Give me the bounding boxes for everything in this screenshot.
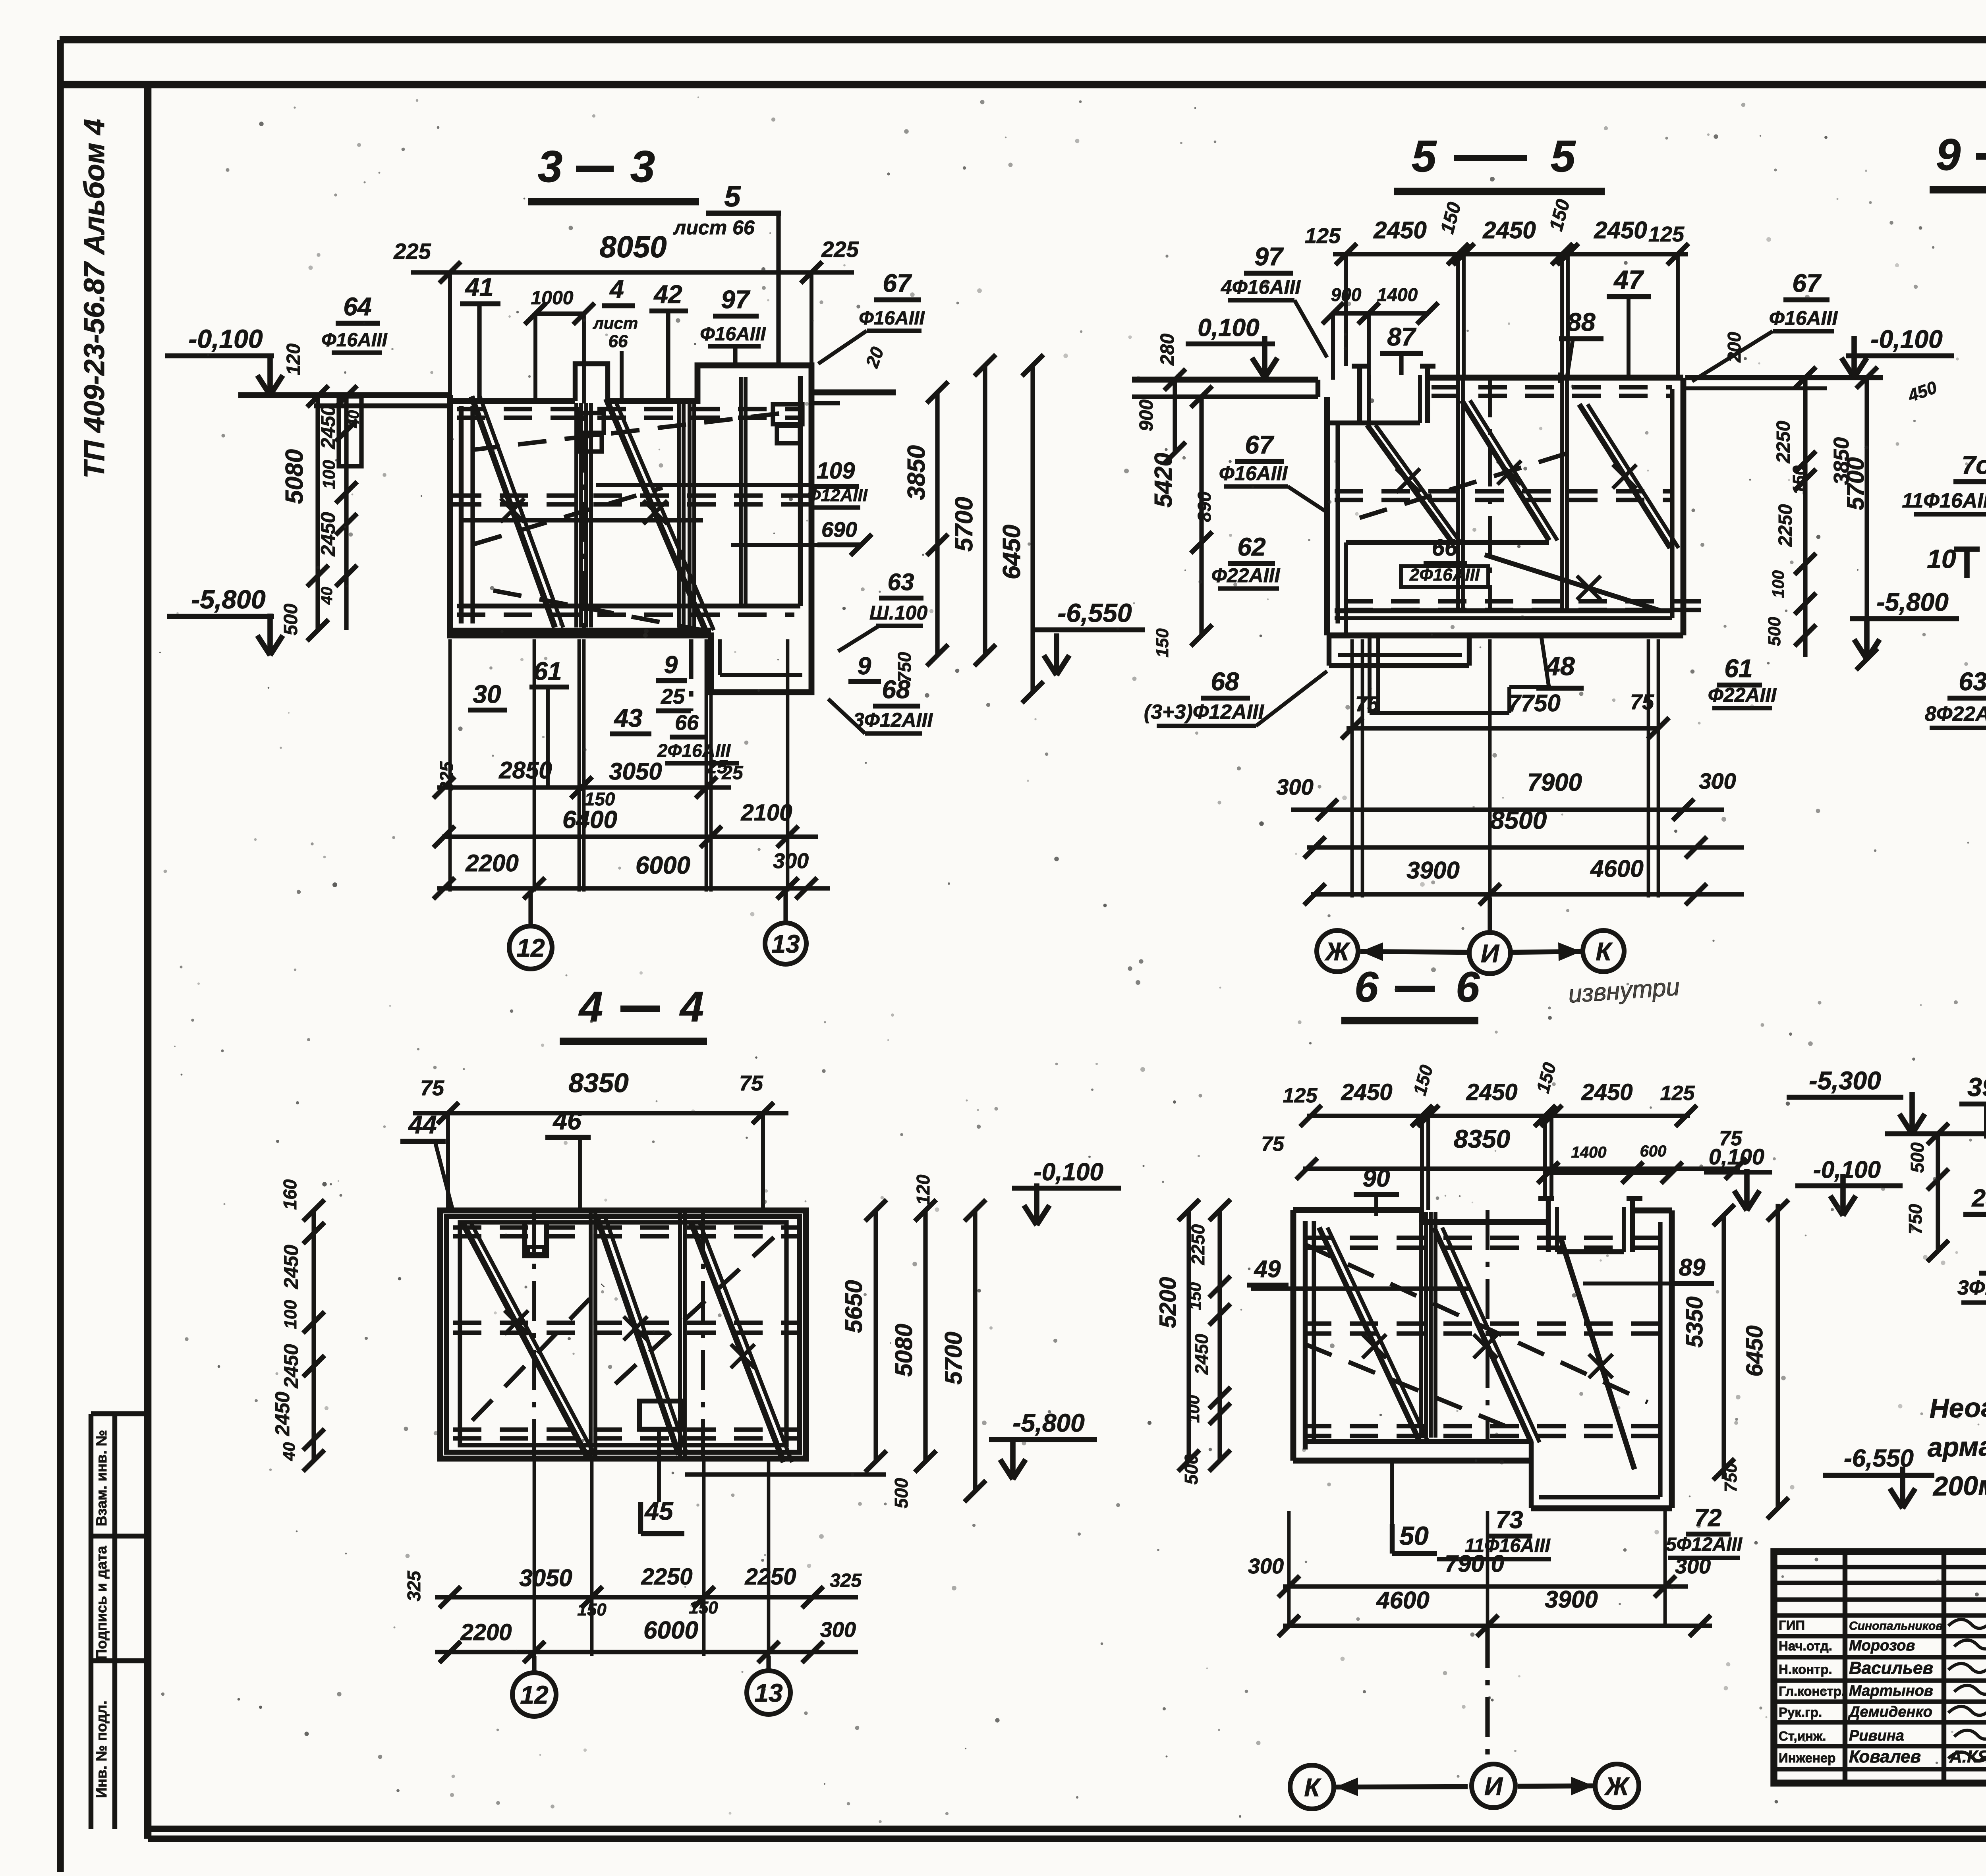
svg-text:Н.контр.: Н.контр. <box>1779 1662 1832 1677</box>
svg-text:89: 89 <box>1679 1254 1706 1281</box>
svg-text:7900: 7900 <box>1527 769 1582 796</box>
svg-text:Инв. № подл.: Инв. № подл. <box>93 1700 110 1798</box>
svg-text:2450: 2450 <box>1581 1079 1632 1105</box>
svg-text:3: 3 <box>630 142 655 191</box>
svg-text:Ф16АIII: Ф16АIII <box>859 308 925 329</box>
svg-text:4: 4 <box>679 982 704 1031</box>
svg-text:К: К <box>1304 1773 1321 1802</box>
svg-text:12: 12 <box>520 1681 548 1709</box>
svg-text:890: 890 <box>1194 491 1215 522</box>
svg-text:2450: 2450 <box>1594 217 1647 243</box>
svg-text:5: 5 <box>1412 131 1437 181</box>
svg-text:арматурных стержней: арматурных стержней <box>1927 1427 1986 1463</box>
svg-text:7о: 7о <box>1962 451 1986 479</box>
svg-text:3050: 3050 <box>519 1565 572 1591</box>
svg-text:8500: 8500 <box>1490 806 1547 834</box>
svg-text:90: 90 <box>1363 1165 1390 1192</box>
svg-text:150: 150 <box>1186 1282 1204 1310</box>
svg-text:300: 300 <box>820 1618 856 1642</box>
svg-text:63: 63 <box>1959 667 1986 696</box>
svg-text:Ф16АIII: Ф16АIII <box>700 324 766 345</box>
svg-text:40: 40 <box>280 1442 298 1461</box>
svg-text:2850: 2850 <box>498 757 552 784</box>
svg-text:2250: 2250 <box>1188 1224 1208 1265</box>
svg-text:3Ф12АIII: 3Ф12АIII <box>853 709 933 731</box>
svg-text:5Ф12АIII: 5Ф12АIII <box>1666 1534 1743 1555</box>
svg-text:500: 500 <box>280 604 301 635</box>
svg-text:68: 68 <box>1211 667 1239 696</box>
svg-text:6400: 6400 <box>562 806 617 834</box>
svg-text:125: 125 <box>1283 1084 1318 1107</box>
svg-text:6: 6 <box>1354 963 1379 1011</box>
svg-text:125: 125 <box>1305 224 1341 248</box>
svg-text:325: 325 <box>404 1570 424 1601</box>
svg-text:40: 40 <box>318 587 336 605</box>
svg-text:5: 5 <box>1551 131 1576 181</box>
svg-text:Ж: Ж <box>1604 1772 1630 1801</box>
svg-text:2200: 2200 <box>460 1619 512 1645</box>
svg-text:5700: 5700 <box>950 497 978 552</box>
svg-text:225: 225 <box>393 239 431 264</box>
svg-text:200мм.: 200мм. <box>1932 1470 1986 1502</box>
svg-text:7750: 7750 <box>1507 690 1560 716</box>
svg-text:125: 125 <box>1660 1082 1695 1105</box>
svg-text:3850: 3850 <box>1830 437 1853 485</box>
svg-text:64: 64 <box>343 292 371 321</box>
svg-text:2450: 2450 <box>317 512 339 556</box>
svg-text:8Ф22АIII: 8Ф22АIII <box>1925 703 1986 726</box>
svg-text:8350: 8350 <box>1454 1125 1510 1153</box>
svg-text:0,100: 0,100 <box>1709 1144 1764 1169</box>
svg-text:12: 12 <box>516 934 545 962</box>
svg-text:Ж: Ж <box>1324 937 1350 966</box>
svg-text:66: 66 <box>609 332 628 351</box>
svg-text:Подпись и дата: Подпись и дата <box>93 1546 110 1660</box>
svg-text:Нач.отд.: Нач.отд. <box>1779 1639 1832 1653</box>
svg-text:100: 100 <box>1769 570 1787 598</box>
svg-text:300: 300 <box>1699 768 1736 793</box>
svg-text:ТП 409-23-56.87 Альбом 4: ТП 409-23-56.87 Альбом 4 <box>79 119 110 479</box>
svg-text:500: 500 <box>891 1478 912 1508</box>
svg-text:Ф16АIII: Ф16АIII <box>321 330 388 351</box>
svg-text:100: 100 <box>281 1300 300 1329</box>
svg-text:11Ф16АIII: 11Ф16АIII <box>1902 489 1986 512</box>
svg-text:48: 48 <box>1545 651 1575 681</box>
svg-text:750: 750 <box>1721 1463 1741 1492</box>
svg-text:-0,100: -0,100 <box>1870 325 1942 353</box>
svg-text:А.КЯ-: А.КЯ- <box>1949 1747 1986 1766</box>
svg-text:Ф12АIII: Ф12АIII <box>807 486 868 505</box>
svg-text:120: 120 <box>913 1174 933 1205</box>
svg-text:500: 500 <box>1907 1142 1928 1173</box>
svg-text:9: 9 <box>1936 130 1961 179</box>
svg-text:42: 42 <box>653 280 682 309</box>
svg-text:8050: 8050 <box>599 230 667 264</box>
svg-text:67: 67 <box>883 269 912 297</box>
svg-text:3050: 3050 <box>609 758 662 785</box>
svg-text:62: 62 <box>1237 533 1265 561</box>
svg-text:И: И <box>1484 1772 1503 1801</box>
svg-text:6000: 6000 <box>636 852 690 879</box>
svg-text:(3+3)Ф12АIII: (3+3)Ф12АIII <box>1144 701 1265 724</box>
svg-text:Гл.констр.: Гл.констр. <box>1779 1684 1845 1698</box>
svg-text:9: 9 <box>858 652 871 680</box>
svg-text:3Ф12АIII: 3Ф12АIII <box>1957 1276 1986 1299</box>
svg-text:2250: 2250 <box>1773 421 1794 463</box>
svg-text:3850: 3850 <box>903 445 930 500</box>
svg-text:2450: 2450 <box>271 1392 294 1436</box>
svg-text:Ф22АIII: Ф22АIII <box>1708 684 1777 706</box>
svg-text:3: 3 <box>538 142 562 191</box>
svg-text:-6,550: -6,550 <box>1057 598 1132 627</box>
svg-text:2450: 2450 <box>1482 217 1536 243</box>
svg-text:ГИП: ГИП <box>1779 1618 1805 1633</box>
svg-text:4: 4 <box>609 275 624 303</box>
svg-text:2450: 2450 <box>280 1245 302 1289</box>
svg-text:600: 600 <box>1640 1143 1667 1160</box>
svg-text:690: 690 <box>821 518 857 542</box>
svg-text:К: К <box>1596 937 1613 966</box>
svg-text:100: 100 <box>1184 1395 1203 1423</box>
svg-text:325: 325 <box>830 1570 862 1591</box>
svg-text:2450: 2450 <box>1341 1079 1392 1105</box>
svg-text:2450: 2450 <box>1191 1334 1212 1375</box>
svg-text:2250: 2250 <box>1775 504 1796 547</box>
svg-text:88: 88 <box>1567 308 1596 336</box>
svg-text:Ст,инж.: Ст,инж. <box>1779 1729 1826 1743</box>
svg-text:150: 150 <box>1789 465 1809 495</box>
svg-text:4600: 4600 <box>1590 855 1643 882</box>
svg-text:500: 500 <box>1181 1454 1202 1484</box>
svg-text:лист: лист <box>593 314 638 332</box>
svg-text:325: 325 <box>436 761 457 792</box>
svg-text:25: 25 <box>661 685 685 708</box>
svg-text:2450: 2450 <box>317 405 339 449</box>
svg-text:4Ф16АIII: 4Ф16АIII <box>1221 276 1301 298</box>
svg-text:40: 40 <box>345 410 362 428</box>
svg-text:Ш.100: Ш.100 <box>869 602 927 624</box>
svg-text:Васильев: Васильев <box>1849 1658 1933 1678</box>
svg-text:8350: 8350 <box>568 1068 628 1098</box>
svg-text:120: 120 <box>283 344 304 375</box>
svg-text:4600: 4600 <box>1376 1587 1429 1614</box>
svg-text:2450: 2450 <box>1466 1079 1517 1105</box>
svg-text:75: 75 <box>739 1071 763 1095</box>
svg-text:5700: 5700 <box>940 1332 967 1384</box>
svg-text:66: 66 <box>675 711 699 735</box>
svg-text:Ф16АIII: Ф16АIII <box>1219 462 1288 484</box>
svg-text:900: 900 <box>1136 400 1157 431</box>
svg-text:73: 73 <box>1496 1506 1523 1534</box>
svg-text:1000: 1000 <box>531 288 574 309</box>
svg-text:Инженер: Инженер <box>1779 1751 1835 1765</box>
svg-text:1400: 1400 <box>1571 1144 1607 1161</box>
svg-text:61: 61 <box>533 657 562 685</box>
svg-text:Морозов: Морозов <box>1849 1637 1915 1654</box>
svg-text:-0,100: -0,100 <box>1034 1158 1103 1186</box>
svg-text:225: 225 <box>821 237 859 262</box>
svg-text:2100: 2100 <box>740 800 792 826</box>
svg-text:750: 750 <box>1905 1204 1926 1234</box>
svg-text:66: 66 <box>1432 535 1458 561</box>
svg-text:3900: 3900 <box>1545 1586 1598 1613</box>
svg-text:5080: 5080 <box>891 1324 917 1376</box>
svg-text:39: 39 <box>1967 1072 1986 1102</box>
svg-text:63: 63 <box>888 569 914 595</box>
svg-text:47: 47 <box>1613 265 1644 294</box>
svg-text:50: 50 <box>1399 1521 1429 1550</box>
svg-text:Взам. инв. №: Взам. инв. № <box>93 1430 110 1527</box>
svg-text:43: 43 <box>613 704 642 732</box>
svg-text:44: 44 <box>408 1110 437 1139</box>
svg-text:5650: 5650 <box>840 1280 867 1333</box>
svg-text:Ф22АIII: Ф22АIII <box>1211 564 1281 587</box>
svg-text:5: 5 <box>724 180 741 213</box>
svg-text:30: 30 <box>473 680 501 708</box>
svg-text:-0,100: -0,100 <box>1813 1156 1881 1183</box>
svg-text:2250: 2250 <box>641 1564 692 1590</box>
svg-text:Синопальников: Синопальников <box>1849 1619 1943 1633</box>
svg-text:Ривина: Ривина <box>1849 1727 1904 1744</box>
svg-text:300: 300 <box>1276 774 1313 799</box>
svg-text:13: 13 <box>771 930 800 958</box>
svg-text:67: 67 <box>1792 269 1822 297</box>
svg-text:5420: 5420 <box>1150 453 1177 508</box>
svg-text:Рук.гр.: Рук.гр. <box>1779 1705 1822 1720</box>
svg-text:2250: 2250 <box>744 1564 796 1590</box>
svg-text:4: 4 <box>578 982 603 1031</box>
svg-text:6450: 6450 <box>998 525 1026 579</box>
svg-text:41: 41 <box>464 273 493 301</box>
svg-text:5350: 5350 <box>1682 1296 1708 1347</box>
svg-text:300: 300 <box>1248 1554 1284 1578</box>
svg-text:2200: 2200 <box>465 850 518 876</box>
svg-text:500: 500 <box>1765 617 1784 646</box>
svg-text:6450: 6450 <box>1742 1325 1768 1376</box>
svg-text:67: 67 <box>1245 430 1275 459</box>
svg-text:75: 75 <box>1261 1133 1285 1156</box>
svg-text:46: 46 <box>552 1106 582 1135</box>
svg-text:Мартынов: Мартынов <box>1849 1683 1933 1699</box>
svg-text:5080: 5080 <box>281 449 308 504</box>
svg-text:49: 49 <box>1254 1256 1281 1282</box>
svg-text:97: 97 <box>721 285 751 314</box>
svg-text:-5,800: -5,800 <box>191 585 265 614</box>
svg-text:75: 75 <box>1355 692 1379 716</box>
svg-text:3900: 3900 <box>1406 857 1459 884</box>
svg-text:-5,800: -5,800 <box>1876 588 1948 616</box>
svg-text:109: 109 <box>817 458 855 484</box>
svg-text:10: 10 <box>1927 544 1956 573</box>
svg-text:6: 6 <box>1456 963 1480 1011</box>
svg-text:Демиденко: Демиденко <box>1848 1704 1932 1720</box>
svg-text:0,100: 0,100 <box>1198 314 1259 342</box>
svg-text:Ф16АIII: Ф16АIII <box>1769 307 1838 329</box>
svg-text:-5,300: -5,300 <box>1809 1066 1881 1095</box>
svg-text:87: 87 <box>1387 322 1417 351</box>
svg-text:13: 13 <box>754 1679 782 1707</box>
svg-text:68: 68 <box>882 675 910 704</box>
svg-text:160: 160 <box>280 1179 300 1210</box>
svg-text:И: И <box>1481 939 1500 968</box>
svg-text:-0,100: -0,100 <box>188 324 263 353</box>
svg-text:300: 300 <box>1675 1554 1711 1578</box>
svg-text:75: 75 <box>1630 690 1654 714</box>
svg-text:25: 25 <box>1972 1185 1986 1212</box>
svg-text:100: 100 <box>319 460 339 489</box>
svg-text:1400: 1400 <box>1377 284 1418 305</box>
svg-text:2450: 2450 <box>280 1344 302 1388</box>
svg-text:790 0: 790 0 <box>1445 1550 1504 1577</box>
svg-text:61: 61 <box>1724 654 1752 683</box>
svg-text:75: 75 <box>420 1076 444 1100</box>
svg-text:150: 150 <box>1153 628 1172 658</box>
svg-text:5200: 5200 <box>1155 1277 1181 1328</box>
svg-text:97: 97 <box>1254 242 1284 271</box>
svg-text:2450: 2450 <box>1373 217 1426 243</box>
svg-text:300: 300 <box>773 849 809 873</box>
svg-text:Ковалев: Ковалев <box>1849 1747 1921 1766</box>
svg-text:лист 66: лист 66 <box>673 216 755 239</box>
svg-text:900: 900 <box>1331 284 1362 305</box>
svg-text:9: 9 <box>664 651 678 679</box>
svg-text:6000: 6000 <box>643 1617 698 1644</box>
svg-text:125: 125 <box>1648 222 1685 246</box>
